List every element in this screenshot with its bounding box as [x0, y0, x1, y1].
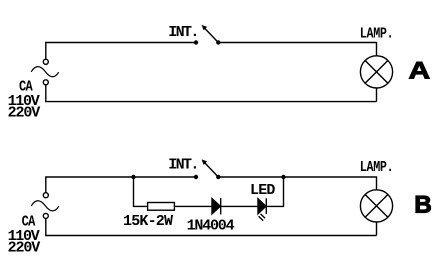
- label LED: [250, 182, 275, 199]
- svg-text:B: B: [414, 192, 431, 219]
- svg-text:220V: 220V: [8, 105, 41, 122]
- wire top rail right segment circuit A: [218, 43, 376, 56]
- switch lever with arrow circuit B: [202, 159, 219, 177]
- label B circuit designator: [414, 192, 431, 219]
- wire bottom rail circuit B: [46, 218, 377, 235]
- lamp circuit A: [360, 56, 392, 88]
- node junction left circuit B: [131, 175, 135, 179]
- label 110V circuit A: [8, 93, 40, 110]
- wire LED to right branch vertical: [266, 177, 283, 206]
- node junction right circuit B: [281, 175, 285, 179]
- label 110V circuit B: [8, 228, 40, 245]
- wire top rail right segment circuit B: [218, 177, 376, 190]
- wire resistor to diode: [174, 205, 212, 207]
- svg-text:INT.: INT.: [168, 24, 198, 41]
- svg-text:LAMP.: LAMP.: [360, 26, 394, 43]
- LED D2: [258, 198, 266, 214]
- label 220V circuit B: [8, 240, 41, 257]
- label 1N4004: [187, 218, 235, 235]
- wire lamp bottom to bottom rail circuit B: [376, 222, 378, 236]
- label CA circuit B: [22, 215, 36, 232]
- wire lamp bottom to bottom rail circuit A: [376, 88, 378, 102]
- svg-text:LAMP.: LAMP.: [360, 160, 394, 177]
- switch INT. contact dots circuit B: [194, 175, 221, 179]
- label A circuit designator: [409, 57, 431, 84]
- resistor R1 15K-2W: [148, 203, 175, 211]
- AC source CA circuit B: [31, 193, 59, 219]
- wire bottom rail circuit A: [46, 85, 377, 102]
- diode D1 1N4004: [212, 198, 221, 214]
- svg-text:220V: 220V: [8, 240, 41, 257]
- label 15K-2W: [123, 213, 173, 230]
- label 220V circuit A: [8, 105, 41, 122]
- label LAMP. circuit B: [360, 160, 394, 177]
- switch INT. contact dots circuit A: [194, 40, 221, 44]
- AC source CA circuit A: [31, 59, 59, 85]
- LED emission strokes: [259, 214, 266, 221]
- svg-text:15K-2W: 15K-2W: [123, 213, 173, 230]
- label INT. circuit A: [168, 24, 198, 41]
- label INT. circuit B: [168, 156, 198, 173]
- switch lever with arrow circuit A: [202, 25, 219, 43]
- label LAMP. circuit A: [360, 26, 394, 43]
- svg-text:LED: LED: [250, 182, 275, 199]
- wire top rail left segment circuit B: [46, 177, 196, 193]
- label CA circuit A: [19, 80, 33, 97]
- wire top rail left segment circuit A: [46, 43, 196, 60]
- svg-text:A: A: [409, 57, 431, 84]
- wire diode to LED: [221, 205, 258, 207]
- wire branch left vertical circuit B: [134, 177, 148, 206]
- svg-text:INT.: INT.: [168, 156, 198, 173]
- svg-text:1N4004: 1N4004: [187, 218, 235, 235]
- lamp circuit B: [360, 190, 392, 222]
